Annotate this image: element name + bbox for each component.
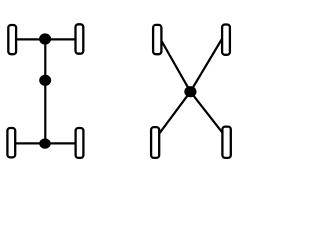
node center gearbox <box>39 75 51 86</box>
node rear junction <box>39 138 50 148</box>
wire to front-left wheel <box>157 33 190 92</box>
wheel X front-left <box>153 25 161 54</box>
wire front axle left <box>12 38 45 40</box>
wire to front-right wheel <box>190 33 225 92</box>
wire front axle right <box>45 38 79 40</box>
wheel front-left <box>8 25 16 54</box>
wheel front-right <box>76 24 84 53</box>
node X center <box>184 86 196 97</box>
wheel X rear-left <box>151 127 159 158</box>
wheel rear-right <box>76 128 84 158</box>
wheel X rear-right <box>222 127 230 158</box>
node front junction <box>39 33 51 44</box>
wire rear axle right <box>45 142 79 144</box>
wheel rear-left <box>7 128 15 157</box>
wire to rear-left wheel <box>155 92 190 139</box>
wire to rear-right wheel <box>190 92 226 138</box>
wire driveshaft <box>44 39 46 143</box>
wire rear axle left <box>12 142 45 144</box>
wheel X front-right <box>222 25 230 55</box>
